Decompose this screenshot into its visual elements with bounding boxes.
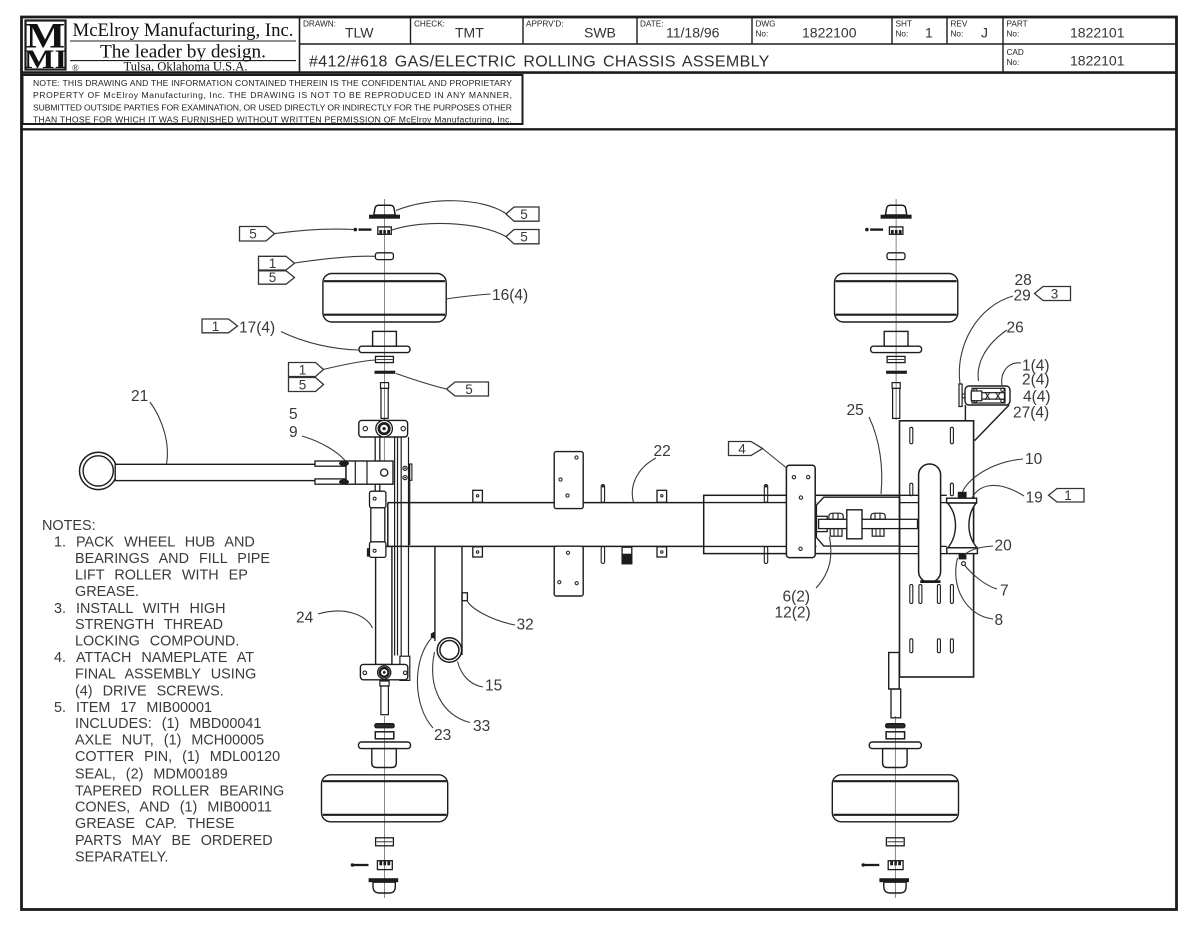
- svg-text:NOTE: THIS DRAWING AND THE INF: NOTE: THIS DRAWING AND THE INFORMATION C…: [33, 78, 512, 88]
- svg-text:COTTER PIN, (1) MDL00120: COTTER PIN, (1) MDL00120: [75, 749, 280, 765]
- svg-text:DRAWN:: DRAWN:: [303, 20, 336, 29]
- svg-text:APPRV’D:: APPRV’D:: [526, 20, 564, 29]
- svg-text:#412/#618 GAS/ELECTRIC ROLLING: #412/#618 GAS/ELECTRIC ROLLING CHASSIS A…: [309, 54, 770, 71]
- leader 19: [972, 485, 1024, 498]
- svg-text:32: 32: [517, 617, 534, 634]
- svg-text:24: 24: [296, 610, 314, 627]
- wheel assembly bottom-left: [322, 716, 448, 898]
- svg-text:LIFT ROLLER WITH EP: LIFT ROLLER WITH EP: [75, 568, 248, 584]
- leader 25: [869, 417, 882, 494]
- svg-text:33: 33: [473, 718, 490, 735]
- caster swivel top plate 5/9: [359, 420, 408, 437]
- leader flag4: [763, 449, 787, 468]
- leader 32: [467, 600, 515, 625]
- grease fitting 23: [431, 631, 435, 638]
- svg-text:1: 1: [212, 319, 220, 334]
- svg-text:SHT: SHT: [896, 20, 912, 29]
- svg-text:MI: MI: [24, 46, 67, 74]
- flag 1 (19, right): [1049, 489, 1085, 503]
- svg-text:9: 9: [289, 424, 298, 441]
- svg-text:NOTES:: NOTES:: [42, 518, 96, 534]
- svg-text:5: 5: [289, 406, 298, 423]
- company name text: [72, 20, 294, 73]
- leader 28/29: [959, 296, 1013, 384]
- leader 5/9 upper: [302, 436, 346, 461]
- wheel assembly top-left (items 16,17): [323, 199, 446, 420]
- svg-text:LOCKING COMPOUND.: LOCKING COMPOUND.: [75, 633, 239, 649]
- title block values: [309, 25, 1125, 71]
- svg-text:®: ®: [72, 63, 79, 73]
- leader flag1/5 washer: [295, 256, 376, 263]
- svg-text:1: 1: [269, 256, 277, 271]
- svg-text:Tulsa, Oklahoma U.S.A.: Tulsa, Oklahoma U.S.A.: [124, 59, 248, 73]
- svg-text:No:: No:: [1007, 30, 1020, 39]
- svg-text:PARTS MAY BE ORDERED: PARTS MAY BE ORDERED: [75, 833, 273, 849]
- McElroy logo M/MI: [24, 16, 67, 74]
- caster lower axle: [380, 681, 389, 715]
- svg-text:TAPERED ROLLER BEARING: TAPERED ROLLER BEARING: [75, 783, 284, 799]
- svg-text:1: 1: [299, 362, 307, 377]
- svg-text:CONES, AND (1) MIB00011: CONES, AND (1) MIB00011: [75, 799, 272, 815]
- wheel assembly bottom-right: [832, 716, 958, 898]
- svg-text:DATE:: DATE:: [640, 20, 664, 29]
- flag 5 (hub washer): [289, 378, 324, 392]
- leader flag5 left: [275, 229, 355, 234]
- svg-text:No:: No:: [756, 30, 769, 39]
- svg-text:5.: 5.: [54, 700, 66, 716]
- svg-text:SUBMITTED OUTSIDE PARTIES FOR: SUBMITTED OUTSIDE PARTIES FOR EXAMINATIO…: [33, 102, 512, 112]
- toggle clamp 26/28/29: [959, 384, 1010, 441]
- svg-text:1.: 1.: [54, 535, 66, 551]
- flag 5 (seal, right): [447, 382, 489, 396]
- svg-text:26: 26: [1007, 320, 1024, 337]
- svg-text:11/18/96: 11/18/96: [666, 25, 720, 41]
- svg-text:FINAL ASSEMBLY USING: FINAL ASSEMBLY USING: [75, 667, 256, 683]
- svg-text:4(4): 4(4): [1023, 389, 1051, 406]
- svg-text:5: 5: [249, 227, 257, 242]
- right stand plate 25: [900, 421, 974, 677]
- flag 1 (hub washer): [289, 363, 324, 377]
- svg-text:GREASE CAP. THESE: GREASE CAP. THESE: [75, 816, 234, 832]
- svg-text:THAN THOSE FOR WHICH IT WAS FU: THAN THOSE FOR WHICH IT WAS FURNISHED WI…: [33, 115, 512, 125]
- svg-text:CHECK:: CHECK:: [414, 20, 445, 29]
- svg-text:SWB: SWB: [584, 25, 616, 41]
- svg-text:2(4): 2(4): [1022, 372, 1050, 389]
- leader 8: [956, 558, 993, 619]
- svg-text:DWG: DWG: [756, 20, 776, 29]
- flag 4: [729, 442, 763, 456]
- svg-text:12(2): 12(2): [775, 605, 811, 622]
- svg-text:5: 5: [269, 270, 277, 285]
- flag 5 (washer): [259, 271, 295, 284]
- telescoping sleeve: [704, 495, 947, 553]
- leader flag5 top-right b: [392, 223, 506, 236]
- caster rails: [395, 437, 412, 680]
- svg-text:STRENGTH THREAD: STRENGTH THREAD: [75, 617, 223, 633]
- pipe roller 19: [947, 492, 978, 566]
- leader 15: [458, 662, 484, 688]
- pipe lift tube 32: [431, 546, 468, 662]
- flag 1 (washer): [259, 256, 295, 270]
- leader 26: [978, 330, 1007, 381]
- title block: [22, 17, 1177, 73]
- svg-text:1: 1: [1064, 488, 1072, 503]
- leader 16(4): [447, 294, 491, 299]
- flag 5 (nut, right): [506, 230, 539, 244]
- main beam 22: [388, 503, 704, 547]
- bolt 20: [959, 554, 967, 560]
- svg-text:1: 1: [925, 25, 933, 41]
- svg-text:1822100: 1822100: [802, 25, 857, 41]
- flag 3: [1035, 287, 1071, 301]
- nameplate plate 4: [786, 465, 815, 557]
- svg-text:5: 5: [299, 377, 307, 392]
- flag 1 (17): [202, 319, 238, 333]
- svg-text:19: 19: [1026, 490, 1043, 507]
- svg-text:No:: No:: [1007, 58, 1020, 67]
- svg-text:17(4): 17(4): [239, 320, 275, 337]
- caster mast left column: [375, 437, 392, 665]
- title block labels: [303, 20, 1028, 68]
- svg-text:PACK WHEEL HUB AND: PACK WHEEL HUB AND: [76, 535, 255, 551]
- svg-text:28: 28: [1015, 272, 1032, 289]
- beam clip plates: [473, 490, 667, 557]
- bolt right: [871, 513, 885, 519]
- svg-text:29: 29: [1014, 288, 1031, 305]
- handle 21: [80, 452, 347, 489]
- svg-text:21: 21: [131, 388, 148, 405]
- item labels: [131, 272, 1051, 744]
- svg-text:3.: 3.: [54, 601, 66, 617]
- beam pins: [601, 485, 768, 564]
- svg-text:SEAL, (2) MDM00189: SEAL, (2) MDM00189: [75, 766, 228, 782]
- svg-text:AXLE NUT, (1) MCH00005: AXLE NUT, (1) MCH00005: [75, 733, 264, 749]
- svg-text:J: J: [981, 25, 988, 41]
- svg-text:3: 3: [1051, 286, 1059, 301]
- notes list: [42, 518, 284, 866]
- handle clamp: [315, 461, 393, 485]
- svg-text:8: 8: [995, 612, 1004, 629]
- svg-text:(4) DRIVE SCREWS.: (4) DRIVE SCREWS.: [75, 683, 224, 699]
- note box: [23, 75, 523, 125]
- flag 5 (cotter pin): [240, 227, 275, 242]
- leader 10: [963, 459, 1024, 492]
- leader 1(4): [1002, 363, 1021, 386]
- svg-text:TLW: TLW: [345, 25, 374, 41]
- svg-text:22: 22: [654, 443, 671, 460]
- svg-text:1822101: 1822101: [1070, 53, 1125, 69]
- caster bottom plate: [360, 664, 407, 679]
- svg-text:PROPERTY OF McElroy Manufactur: PROPERTY OF McElroy Manufacturing, Inc. …: [33, 90, 512, 100]
- leader flag1/5 lower: [323, 360, 375, 370]
- leader 23: [417, 638, 433, 728]
- leader 21: [150, 402, 167, 464]
- callout flags: [202, 207, 1084, 502]
- leader 20: [965, 546, 994, 555]
- bottom-right axle stub: [889, 653, 901, 718]
- svg-text:PART: PART: [1007, 20, 1028, 29]
- roller 15: [437, 638, 461, 662]
- svg-text:CAD: CAD: [1007, 48, 1024, 57]
- black stop block: [622, 547, 632, 564]
- svg-text:5: 5: [520, 230, 528, 245]
- svg-text:ITEM 17 MIB00001: ITEM 17 MIB00001: [76, 700, 212, 716]
- flag numbers: [212, 207, 1072, 503]
- svg-text:No:: No:: [951, 30, 964, 39]
- svg-text:10: 10: [1025, 451, 1043, 468]
- wheel assembly top-right: [835, 199, 958, 420]
- svg-text:20: 20: [995, 538, 1013, 555]
- clamp screw housing (chamfered): [816, 497, 917, 546]
- svg-text:5: 5: [465, 382, 473, 397]
- leader flag5 top-right a: [396, 201, 506, 214]
- leader 33: [433, 652, 470, 723]
- svg-text:5: 5: [520, 207, 528, 222]
- fitting 7: [962, 562, 966, 566]
- roller guide bar: [919, 464, 941, 582]
- svg-text:23: 23: [434, 727, 451, 744]
- svg-text:15: 15: [485, 678, 502, 695]
- svg-text:1822101: 1822101: [1070, 25, 1125, 41]
- leader 6(2)/12(2): [816, 537, 831, 588]
- svg-text:4: 4: [738, 441, 746, 456]
- mid plate upper: [554, 452, 583, 509]
- leader 24: [318, 611, 373, 628]
- mid plate lower: [554, 546, 583, 596]
- mast side bracket: [367, 491, 386, 557]
- svg-text:6(2): 6(2): [783, 589, 811, 606]
- svg-text:INSTALL WITH HIGH: INSTALL WITH HIGH: [76, 601, 226, 617]
- leader flag5 seal: [396, 374, 447, 390]
- svg-text:BEARINGS AND FILL PIPE: BEARINGS AND FILL PIPE: [75, 551, 270, 567]
- leader 17(4): [281, 332, 359, 351]
- svg-text:TMT: TMT: [455, 25, 484, 41]
- svg-text:4.: 4.: [54, 650, 66, 666]
- svg-text:16(4): 16(4): [492, 287, 528, 304]
- svg-text:INCLUDES: (1) MBD00041: INCLUDES: (1) MBD00041: [75, 716, 261, 732]
- leader lines: [150, 201, 1024, 728]
- bolt 10: [958, 492, 967, 498]
- svg-text:GREASE.: GREASE.: [75, 584, 139, 600]
- svg-text:REV: REV: [951, 20, 968, 29]
- svg-text:25: 25: [847, 402, 864, 419]
- leader 22: [632, 458, 656, 502]
- svg-text:7: 7: [1000, 583, 1009, 600]
- svg-text:SEPARATELY.: SEPARATELY.: [75, 850, 168, 866]
- svg-text:No:: No:: [896, 30, 909, 39]
- svg-text:McElroy Manufacturing, Inc.: McElroy Manufacturing, Inc.: [73, 20, 294, 41]
- svg-text:27(4): 27(4): [1013, 405, 1049, 422]
- bolt 6(2) left: [829, 513, 843, 519]
- svg-text:ATTACH NAMEPLATE AT: ATTACH NAMEPLATE AT: [76, 650, 254, 666]
- flag 5 (cap, right): [506, 207, 539, 221]
- leader 7: [965, 565, 998, 589]
